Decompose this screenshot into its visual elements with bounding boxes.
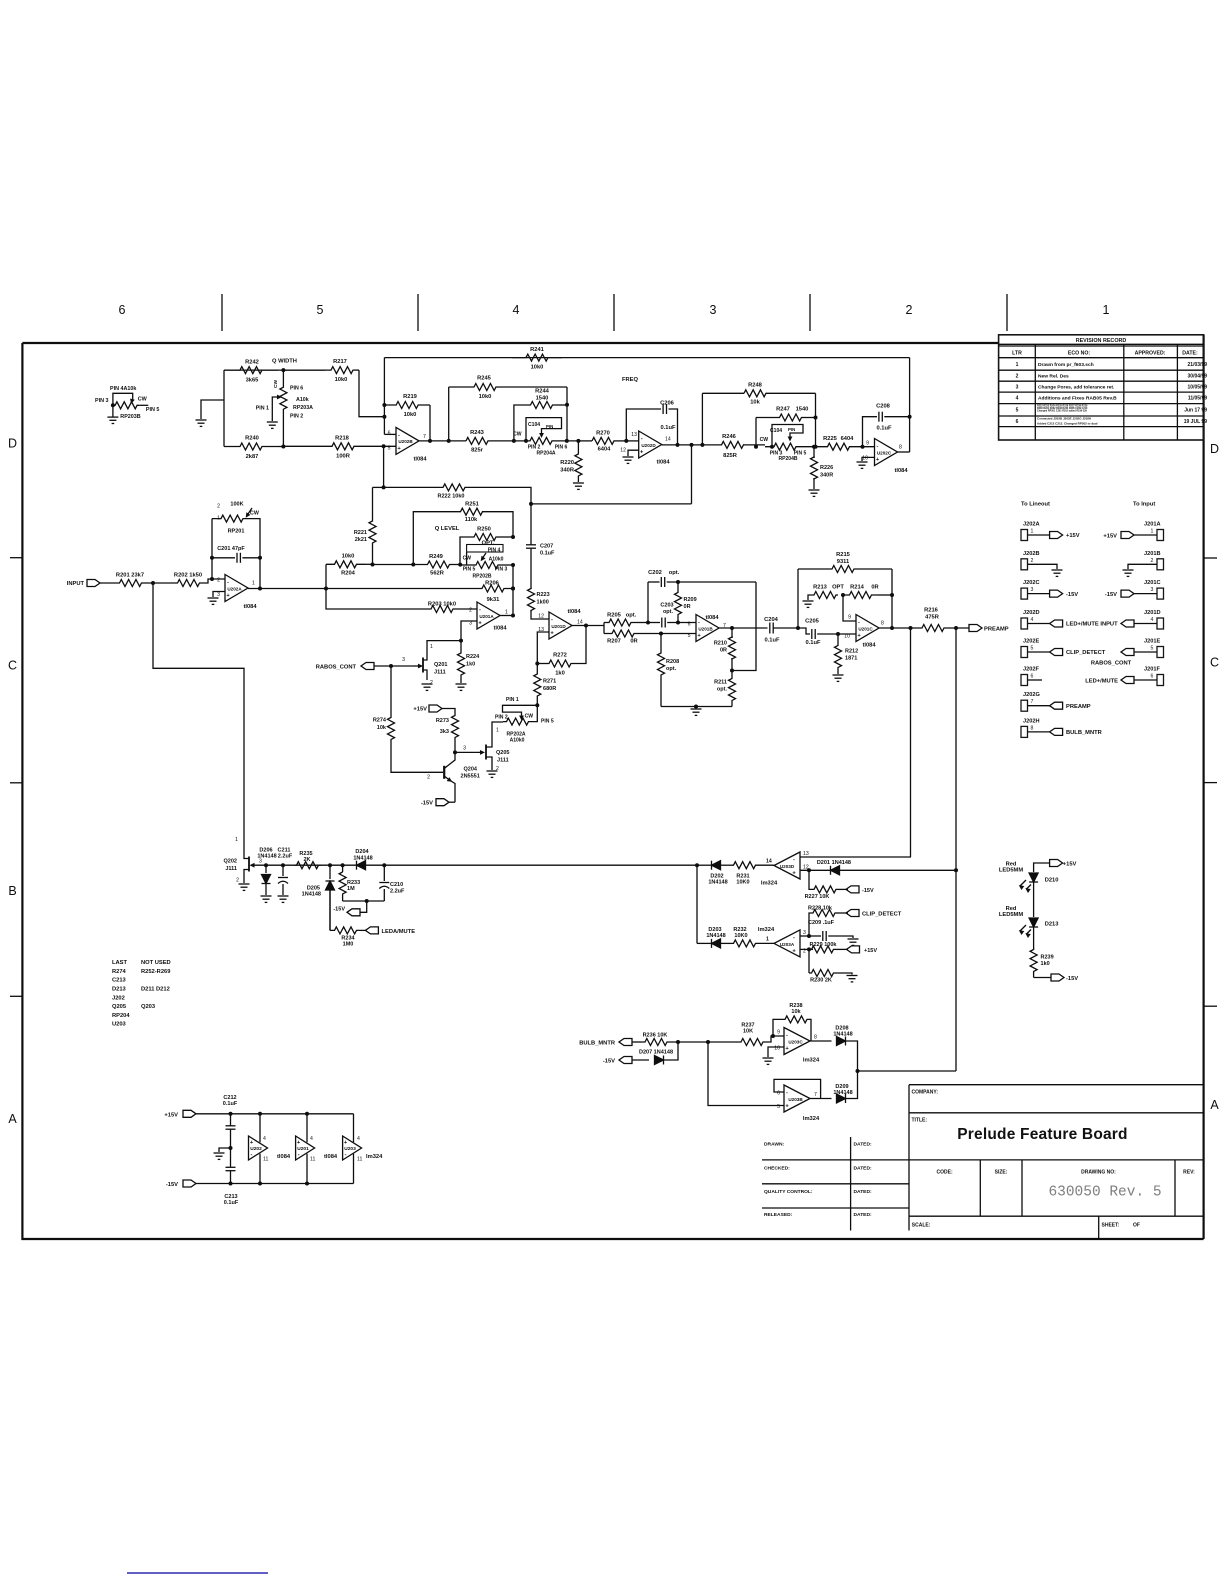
svg-text:-: - [858, 619, 860, 625]
svg-text:4: 4 [1031, 617, 1034, 623]
svg-text:4: 4 [1151, 617, 1154, 623]
svg-text:J202: J202 [112, 995, 125, 1001]
svg-text:tl084: tl084 [862, 643, 876, 649]
resistor R219 [384, 402, 430, 409]
node Q LEVEL tap [691, 445, 693, 504]
approval table [762, 1137, 909, 1231]
svg-text:opt.: opt. [717, 687, 728, 693]
svg-text:Change Pores, add tolerance re: Change Pores, add tolerance ret. [1038, 384, 1115, 390]
wire input node [143, 582, 177, 584]
svg-text:-15V: -15V [333, 907, 345, 913]
connector J202H [1021, 726, 1028, 737]
resistor R274 [390, 666, 392, 716]
svg-text:6: 6 [1016, 419, 1019, 425]
svg-text:J202G: J202G [1023, 692, 1041, 698]
svg-text:CLIP_DETECT: CLIP_DETECT [1066, 650, 1106, 656]
connector -15V LED [1034, 977, 1051, 979]
svg-text:10k0: 10k0 [404, 412, 417, 418]
svg-text:R206: R206 [485, 581, 499, 587]
svg-text:C210: C210 [390, 882, 403, 888]
svg-text:R225: R225 [823, 436, 838, 442]
connector J201F [1157, 675, 1164, 686]
svg-text:1: 1 [1016, 362, 1019, 368]
svg-text:J202E: J202E [1023, 639, 1040, 645]
svg-text:1: 1 [217, 516, 220, 522]
svg-text:Q201: Q201 [434, 662, 448, 668]
svg-text:PIN 2: PIN 2 [495, 715, 508, 721]
svg-text:C206: C206 [660, 401, 674, 407]
svg-text:lm324: lm324 [758, 927, 775, 933]
op-amp U203D (lm324) [774, 852, 800, 879]
svg-text:340R: 340R [820, 473, 833, 479]
svg-text:5: 5 [777, 1104, 780, 1110]
svg-text:TITLE:: TITLE: [912, 1118, 928, 1124]
svg-text:CW: CW [525, 714, 534, 720]
svg-text:2: 2 [427, 775, 430, 781]
svg-text:10k: 10k [377, 725, 387, 731]
svg-text:2: 2 [469, 608, 472, 614]
svg-text:D: D [1210, 442, 1219, 456]
svg-text:U203D: U203D [780, 864, 795, 869]
wire to RP204A [488, 440, 527, 442]
svg-text:U201B: U201B [698, 627, 713, 632]
ground R220 [573, 482, 584, 484]
svg-text:475R: 475R [925, 615, 940, 621]
svg-text:6: 6 [1151, 674, 1154, 680]
svg-text:R207: R207 [607, 639, 621, 645]
node pin6 vertical [383, 358, 385, 435]
svg-text:1871: 1871 [845, 656, 857, 662]
svg-text:-: - [786, 1032, 788, 1038]
svg-text:U202: U202 [250, 1146, 262, 1152]
svg-text:-: - [698, 619, 700, 625]
capacitor C207 [529, 502, 533, 506]
svg-text:+15V: +15V [1103, 534, 1117, 540]
ground R213 [803, 600, 814, 602]
svg-text:4: 4 [513, 303, 520, 317]
svg-text:C208: C208 [876, 404, 891, 410]
svg-text:APPROVED:: APPROVED: [1135, 351, 1166, 357]
svg-text:J202B: J202B [1023, 551, 1040, 557]
svg-text:-: - [641, 436, 643, 442]
resistor R237 [708, 1041, 740, 1043]
svg-text:U202B: U202B [398, 439, 413, 444]
wire U201D output [572, 625, 604, 627]
svg-text:+15V: +15V [864, 948, 877, 954]
ground tap [201, 400, 224, 419]
svg-text:A: A [8, 1112, 17, 1126]
ground RP203B [107, 416, 118, 418]
ground U202D pin12 [628, 450, 639, 456]
svg-text:opt.: opt. [663, 609, 674, 615]
svg-text:U203: U203 [344, 1146, 356, 1152]
svg-text:lm324: lm324 [803, 1116, 820, 1122]
svg-text:14: 14 [577, 620, 583, 626]
svg-text:R247: R247 [776, 407, 790, 413]
resistor R203 [429, 606, 455, 613]
svg-text:D210: D210 [1045, 878, 1059, 884]
svg-text:-15V: -15V [603, 1058, 615, 1064]
connector J202E [1021, 647, 1028, 658]
svg-text:LTR: LTR [1012, 351, 1022, 357]
svg-text:110k: 110k [465, 517, 478, 523]
svg-text:tl084: tl084 [894, 468, 908, 474]
diode D208 [837, 1037, 846, 1046]
svg-text:D: D [8, 437, 17, 451]
svg-text:LED5MM: LED5MM [999, 912, 1023, 918]
svg-text:1N4148: 1N4148 [353, 856, 372, 862]
svg-text:1N4148: 1N4148 [833, 1090, 852, 1096]
svg-text:2.2uF: 2.2uF [278, 854, 293, 860]
svg-text:-15V: -15V [862, 888, 874, 894]
svg-text:DATE:: DATE: [1182, 351, 1198, 357]
connector J201C [1157, 588, 1164, 599]
wire U203B feedback [774, 1079, 821, 1098]
svg-text:680R: 680R [543, 686, 556, 692]
wire U203A pin3 [800, 935, 809, 937]
ground R212 [833, 674, 844, 676]
wire R217 to U202B pin6 node [359, 370, 384, 417]
svg-text:6404: 6404 [841, 436, 855, 442]
svg-text:10k0: 10k0 [479, 394, 492, 400]
svg-text:D213: D213 [1045, 922, 1059, 928]
svg-text:J201E: J201E [1144, 639, 1161, 645]
svg-text:2: 2 [217, 504, 220, 510]
svg-text:SHEET:: SHEET: [1102, 1223, 1120, 1229]
resistor R223 [528, 589, 535, 611]
svg-text:U202C: U202C [877, 451, 892, 456]
svg-text:BULB_MNTR: BULB_MNTR [579, 1040, 616, 1046]
transistor Q204 2N5551 [443, 766, 445, 779]
svg-text:R251: R251 [465, 502, 480, 508]
svg-text:R211: R211 [714, 680, 727, 686]
svg-text:1k0: 1k0 [555, 671, 565, 677]
svg-text:New Rel. Des: New Rel. Des [1038, 374, 1069, 380]
svg-text:Prelude Feature Board: Prelude Feature Board [957, 1126, 1127, 1143]
svg-text:6404: 6404 [598, 447, 612, 453]
svg-text:562R: 562R [430, 571, 445, 577]
svg-text:2: 2 [236, 878, 239, 884]
svg-text:U202A: U202A [227, 587, 242, 592]
wire U202D output [662, 444, 722, 446]
op-amp U203 power stub [343, 1136, 362, 1160]
svg-text:DATED:: DATED: [854, 1189, 872, 1195]
svg-text:R208: R208 [666, 659, 679, 665]
svg-text:0R: 0R [630, 639, 638, 645]
svg-text:-: - [251, 1152, 253, 1158]
svg-text:3: 3 [803, 930, 806, 936]
svg-text:RP204: RP204 [112, 1013, 130, 1019]
svg-text:R209: R209 [684, 597, 697, 603]
svg-text:30/04/99: 30/04/99 [1188, 374, 1208, 380]
resistor R220 [576, 439, 580, 443]
svg-text:R220: R220 [560, 460, 574, 466]
svg-text:7: 7 [1031, 699, 1034, 705]
svg-text:10k0: 10k0 [531, 365, 544, 371]
svg-text:R274: R274 [112, 969, 127, 975]
svg-text:QUALITY CONTROL:: QUALITY CONTROL: [764, 1189, 813, 1195]
svg-text:R218: R218 [335, 435, 350, 441]
resistor R221 [373, 486, 384, 488]
svg-text:1k0: 1k0 [466, 662, 475, 668]
wiper RP203A to ground [272, 397, 279, 421]
svg-text:Q202: Q202 [224, 859, 238, 865]
svg-text:4: 4 [310, 1136, 313, 1142]
svg-text:OPT: OPT [832, 585, 844, 591]
svg-text:2: 2 [906, 303, 913, 317]
resistor R272 [535, 662, 539, 666]
svg-text:OPT.: OPT. [482, 541, 495, 547]
svg-text:DRAWN:: DRAWN: [764, 1142, 784, 1148]
svg-text:0R: 0R [720, 648, 727, 654]
resistor R206 [478, 585, 508, 592]
svg-text:11: 11 [263, 1157, 268, 1163]
wire U202A output [248, 588, 478, 590]
svg-text:1N4148: 1N4148 [706, 933, 725, 939]
capacitor C210 [383, 865, 385, 881]
svg-text:R248: R248 [748, 383, 763, 389]
svg-text:1k00: 1k00 [537, 600, 549, 606]
svg-text:Q LEVEL: Q LEVEL [435, 526, 460, 532]
op-amp U201 power stub [296, 1136, 315, 1160]
svg-text:3: 3 [1031, 587, 1034, 593]
svg-text:CW: CW [138, 396, 148, 402]
wire U203A pin2 [800, 948, 813, 950]
wire U203D pin12 [800, 869, 831, 871]
ground C211 [278, 895, 289, 897]
svg-text:J201C: J201C [1144, 580, 1161, 586]
svg-text:-15V: -15V [421, 801, 433, 807]
svg-text:0.1uF: 0.1uF [224, 1200, 239, 1206]
svg-text:R227 10K: R227 10K [805, 894, 830, 900]
svg-text:J202A: J202A [1023, 522, 1040, 528]
ground Q201 source [422, 683, 433, 685]
connector -15V mute [360, 901, 367, 912]
svg-text:DATED:: DATED: [854, 1166, 872, 1172]
resistor R212 [837, 634, 839, 645]
capacitor C211 [282, 865, 284, 876]
wire R248 right leg [815, 393, 817, 446]
resistor R234 [329, 890, 331, 930]
resistor R207 [604, 630, 642, 637]
svg-text:-: - [786, 1090, 788, 1096]
svg-text:U203C: U203C [788, 1040, 803, 1045]
svg-text:RELEASED:: RELEASED: [764, 1212, 793, 1218]
svg-text:+15V: +15V [413, 707, 427, 713]
svg-text:lm324: lm324 [761, 881, 778, 887]
svg-text:21/03/99: 21/03/99 [1188, 362, 1208, 368]
svg-text:12: 12 [620, 448, 626, 454]
ground J201B [1123, 569, 1134, 571]
svg-text:1: 1 [766, 937, 769, 943]
resistor R270 [578, 440, 592, 442]
svg-text:COMPANY:: COMPANY: [912, 1090, 939, 1096]
svg-text:J201A: J201A [1144, 522, 1161, 528]
capacitor C205 [798, 628, 810, 634]
capacitor C208 [863, 417, 878, 447]
ground rail [695, 707, 697, 709]
op-amp U201D [549, 612, 572, 639]
svg-text:1M: 1M [347, 886, 355, 892]
connector -15V Q204 [449, 801, 455, 803]
svg-text:-: - [398, 432, 400, 438]
svg-text:opt.: opt. [669, 570, 680, 576]
wire U201B output [719, 627, 768, 629]
node split R205 R207 [603, 623, 605, 634]
ground R226 [809, 489, 820, 491]
capacitor C202 [647, 582, 649, 623]
diode D201 [831, 866, 840, 875]
svg-text:-: - [479, 607, 481, 613]
svg-text:PIN 5: PIN 5 [463, 567, 476, 573]
wire U202B output [419, 440, 466, 442]
svg-text:RABOS_CONT: RABOS_CONT [1091, 661, 1132, 667]
resistor R226 [812, 445, 816, 449]
svg-text:R243: R243 [470, 430, 484, 436]
svg-text:10k: 10k [791, 1009, 801, 1015]
svg-text:0.1uF: 0.1uF [764, 638, 780, 644]
connector J202C [1021, 588, 1028, 599]
svg-text:ECO NO:: ECO NO: [1068, 351, 1090, 357]
wire U201A output to node [500, 615, 513, 617]
resistor R224 [460, 641, 462, 651]
svg-text:R244: R244 [535, 389, 550, 395]
svg-text:2: 2 [803, 948, 806, 954]
resistor R239 [1030, 950, 1037, 972]
svg-text:6: 6 [1031, 674, 1034, 680]
svg-text:5: 5 [1151, 646, 1154, 652]
svg-text:A10k: A10k [296, 397, 309, 403]
svg-text:1N4148: 1N4148 [832, 860, 851, 866]
svg-text:5: 5 [388, 445, 391, 451]
svg-text:U201C: U201C [858, 627, 873, 632]
op-amp U203A (lm324) [774, 930, 800, 957]
svg-text:825R: 825R [723, 453, 738, 459]
svg-text:PIN 4: PIN 4 [488, 548, 501, 554]
svg-text:tl084: tl084 [413, 457, 427, 463]
svg-text:CW: CW [463, 556, 472, 562]
svg-text:R217: R217 [333, 359, 347, 365]
svg-text:8: 8 [814, 1035, 817, 1041]
zone ticks right [1204, 557, 1217, 559]
svg-text:Q204: Q204 [464, 767, 478, 773]
svg-text:tl084: tl084 [705, 615, 719, 621]
svg-text:-: - [551, 617, 553, 623]
resistor R202 [177, 580, 200, 587]
svg-text:-: - [345, 1152, 347, 1158]
capacitor C204 [769, 623, 771, 634]
svg-text:RP203A: RP203A [293, 405, 313, 411]
svg-text:C207: C207 [540, 544, 553, 550]
svg-text:J201F: J201F [1144, 667, 1161, 673]
svg-text:6: 6 [119, 303, 126, 317]
svg-text:FREQ: FREQ [622, 377, 639, 383]
svg-text:1N4148: 1N4148 [833, 1032, 852, 1038]
svg-text:14: 14 [766, 859, 772, 865]
svg-text:11/05/99: 11/05/99 [1188, 396, 1207, 402]
svg-text:RP204B: RP204B [778, 456, 797, 462]
svg-text:3k3: 3k3 [440, 729, 449, 735]
svg-text:R221: R221 [354, 530, 367, 536]
resistor R229 [809, 946, 836, 953]
svg-text:R245: R245 [477, 376, 492, 382]
op-amp U202 power stub [249, 1136, 268, 1160]
svg-text:C202: C202 [648, 570, 662, 576]
diode D209 [837, 1094, 846, 1103]
svg-text:6: 6 [688, 622, 691, 628]
ground Q202 [239, 883, 250, 885]
svg-text:13: 13 [803, 851, 809, 857]
svg-text:tl084: tl084 [277, 1154, 291, 1160]
svg-text:J202H: J202H [1023, 718, 1040, 724]
svg-text:Drawn from pr_f603.sch: Drawn from pr_f603.sch [1038, 362, 1094, 368]
transistor Q201 J111 [422, 658, 424, 673]
svg-text:R222 10k0: R222 10k0 [438, 494, 465, 500]
svg-text:3: 3 [710, 303, 717, 317]
ground C209 [848, 938, 859, 940]
wire U203B pin5 feed [708, 1042, 784, 1106]
wire R233 C210 rail [343, 900, 385, 902]
zone ticks left [10, 557, 22, 559]
resistor R236 [642, 1039, 670, 1046]
resistor R251 [413, 512, 459, 565]
wire R218 to pin5 [356, 445, 396, 447]
resistor R250 [511, 535, 515, 539]
svg-text:Connected J202B J202E J202G J2: Connected J202B J202E J202G J202H [1037, 417, 1091, 421]
resistor R228 [809, 913, 812, 936]
resistor R238 [773, 1019, 784, 1036]
svg-text:U203A: U203A [780, 942, 795, 947]
connector +15V LED [1050, 860, 1063, 867]
svg-text:+15V: +15V [164, 1112, 178, 1118]
svg-text:-15V: -15V [1066, 976, 1078, 982]
resistor R245 [448, 387, 450, 441]
svg-text:J201D: J201D [1144, 610, 1161, 616]
resistor R244 [514, 405, 527, 441]
svg-text:R274: R274 [373, 718, 387, 724]
resistor R230 [808, 949, 810, 973]
svg-text:C213: C213 [112, 978, 126, 984]
title block [909, 1085, 1204, 1239]
svg-text:1N4148: 1N4148 [708, 880, 727, 886]
capacitor C209 [809, 935, 821, 937]
transistor Q205 J111 [485, 745, 487, 760]
svg-text:Changed RP201 C201 R202 added: Changed RP201 C201 R202 added R236-239 [1037, 410, 1087, 413]
svg-text:1k0: 1k0 [1041, 961, 1050, 967]
feedback rail right [732, 582, 756, 671]
svg-text:J202F: J202F [1023, 667, 1040, 673]
op-amp U202D [626, 440, 638, 442]
svg-text:R249: R249 [429, 554, 443, 560]
wire U201A pin3 loop [427, 621, 477, 652]
svg-text:PREAMP: PREAMP [1066, 704, 1091, 710]
svg-text:1: 1 [1031, 529, 1034, 535]
capacitor C203 [648, 622, 660, 624]
resistor R241 [384, 357, 909, 359]
svg-text:SIZE:: SIZE: [995, 1169, 1008, 1175]
svg-text:J111: J111 [225, 866, 237, 872]
svg-text:CW: CW [273, 380, 279, 388]
node RP202B right leg [512, 565, 514, 616]
svg-text:2k21: 2k21 [355, 537, 367, 543]
ground J202B [1052, 569, 1063, 571]
svg-text:R273: R273 [436, 718, 449, 724]
svg-text:2: 2 [1016, 374, 1019, 380]
svg-text:PIN 6: PIN 6 [290, 386, 303, 392]
svg-text:0R: 0R [684, 604, 691, 610]
svg-text:-: - [793, 857, 795, 863]
svg-text:1: 1 [1151, 529, 1154, 535]
